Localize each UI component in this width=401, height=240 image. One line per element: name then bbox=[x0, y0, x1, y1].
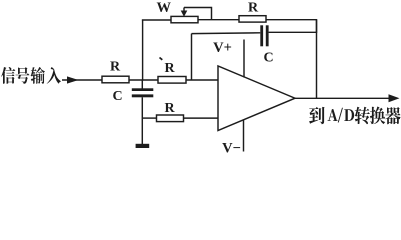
wire: W right side to R3 bbox=[198, 19, 239, 21]
resistor R3 (feedback R) bbox=[239, 16, 266, 22]
resistor R4 (bias R to non-inverting input) bbox=[157, 115, 184, 122]
label: output text 到 A/D 转换器 bbox=[309, 107, 325, 124]
resistor R1 (input series R) bbox=[102, 76, 129, 83]
svg-text:C: C bbox=[112, 89, 122, 104]
wire: C1 bottom plate to ground bbox=[141, 97, 143, 144]
wire: vertical from top rail down to node A bbox=[142, 20, 144, 81]
wire: branch from ground line to R4 bbox=[142, 117, 156, 119]
label: input text 信号输入 bbox=[1, 67, 15, 84]
svg-text:R: R bbox=[248, 0, 259, 15]
svg-text:R: R bbox=[164, 61, 175, 76]
wire: vertical branch from inverting node up to feedback line bbox=[191, 34, 193, 80]
ground bbox=[136, 144, 150, 148]
svg-text:V+: V+ bbox=[213, 40, 232, 56]
svg-text:C: C bbox=[263, 51, 273, 66]
wire: R4 to op-amp non-inverting input bbox=[184, 117, 219, 119]
wire: op-amp output bbox=[295, 97, 396, 99]
svg-text:R: R bbox=[164, 101, 175, 116]
capacitor C1 plates bbox=[132, 88, 154, 91]
svg-text:W: W bbox=[157, 0, 172, 16]
op-amp U1 triangle bbox=[218, 66, 295, 131]
capacitor C1 top lead bbox=[141, 80, 143, 89]
potentiometer wiper arrow bbox=[183, 8, 185, 13]
V+ power pin bbox=[243, 40, 245, 78]
wire: top rail from node A vertical to potentiometer W bbox=[142, 19, 171, 21]
wire: feedback vertical down to output node bbox=[316, 20, 318, 99]
output arrowhead bbox=[389, 94, 400, 102]
svg-text:R: R bbox=[110, 60, 121, 75]
wire: C2 right lead to feedback vertical bbox=[269, 31, 317, 33]
resistor R2 (series R to inverting input) bbox=[158, 77, 186, 84]
wire: R3 right to feedback vertical bbox=[266, 20, 317, 33]
wire: R1 to R2 through input node A bbox=[129, 79, 158, 81]
wire: feedback capacitor C2 left lead bbox=[192, 32, 261, 35]
capacitor C2 plates bbox=[260, 25, 263, 46]
wire: input lead bbox=[62, 79, 102, 81]
wire: R2 to op-amp inverting input bbox=[186, 79, 218, 81]
V- power pin bbox=[243, 120, 245, 152]
wire: wiper loop to right end of W bbox=[184, 8, 212, 20]
input signal arrow bbox=[67, 76, 79, 83]
potentiometer W body bbox=[171, 16, 198, 22]
svg-text:V−: V− bbox=[222, 140, 241, 155]
